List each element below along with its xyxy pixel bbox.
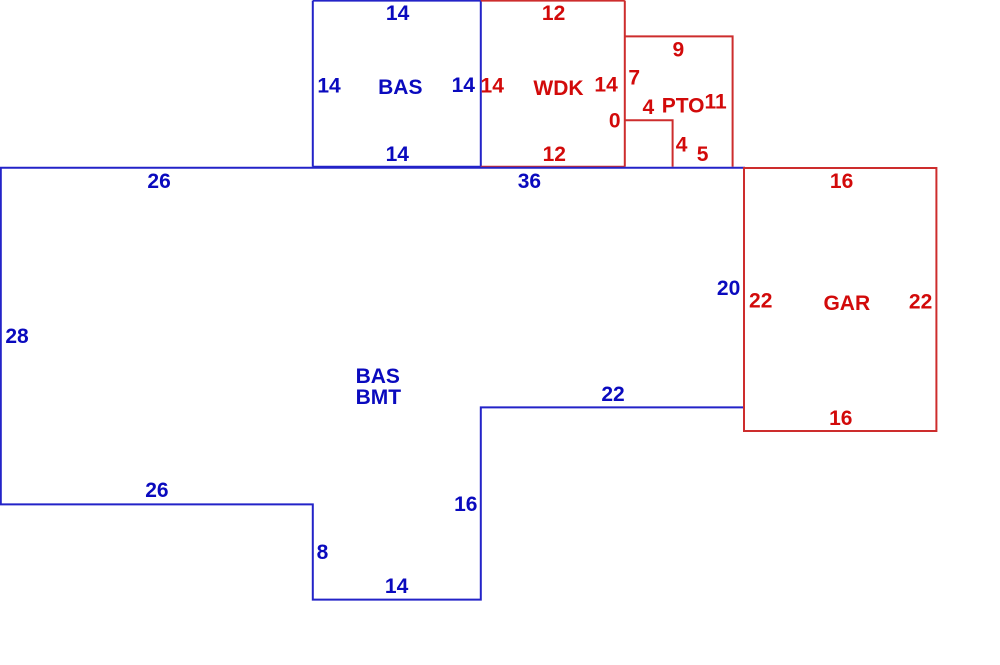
svg-text:9: 9 (673, 39, 685, 62)
svg-text:14: 14 (317, 74, 341, 97)
garage GAR outline (744, 168, 936, 431)
svg-text:22: 22 (909, 291, 932, 314)
svg-text:22: 22 (601, 383, 624, 406)
svg-text:20: 20 (717, 277, 740, 300)
svg-text:8: 8 (317, 541, 329, 564)
svg-text:26: 26 (147, 170, 170, 193)
room WDK outline (481, 1, 625, 167)
svg-text:14: 14 (481, 75, 505, 98)
svg-text:36: 36 (518, 170, 541, 193)
svg-text:7: 7 (628, 67, 640, 90)
porch PTO outline (625, 36, 733, 166)
svg-text:16: 16 (829, 407, 852, 430)
svg-text:12: 12 (543, 143, 566, 166)
svg-text:WDK: WDK (533, 77, 583, 100)
svg-text:0: 0 (609, 110, 621, 133)
svg-text:16: 16 (830, 170, 853, 193)
svg-text:16: 16 (454, 493, 477, 516)
svg-text:14: 14 (594, 74, 618, 97)
svg-text:12: 12 (542, 2, 565, 25)
svg-text:28: 28 (5, 325, 29, 348)
svg-text:BMT: BMT (356, 386, 402, 409)
svg-text:PTO: PTO (662, 94, 705, 117)
basement BAS BMT outline (1, 168, 744, 600)
svg-text:4: 4 (676, 133, 688, 156)
room BAS outline (313, 1, 481, 167)
svg-text:14: 14 (386, 143, 410, 166)
svg-text:14: 14 (385, 575, 409, 598)
svg-text:5: 5 (697, 143, 709, 166)
svg-text:14: 14 (452, 74, 476, 97)
svg-text:26: 26 (145, 479, 168, 502)
svg-text:BAS: BAS (378, 76, 422, 99)
svg-text:22: 22 (749, 290, 772, 313)
svg-text:4: 4 (642, 96, 654, 119)
svg-text:GAR: GAR (823, 292, 870, 315)
svg-text:14: 14 (386, 2, 410, 25)
svg-text:BAS: BAS (356, 365, 400, 388)
svg-text:11: 11 (704, 91, 727, 114)
